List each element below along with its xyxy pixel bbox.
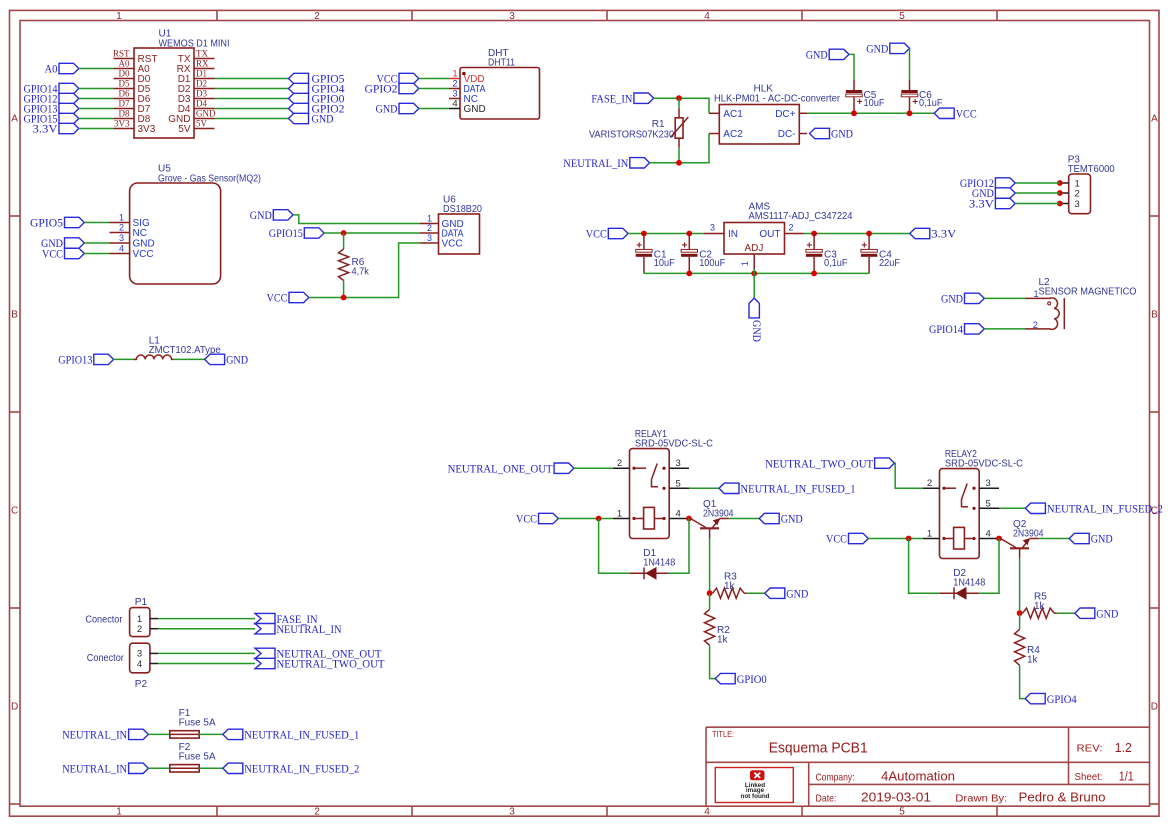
svg-text:D: D xyxy=(1151,702,1158,713)
svg-text:GPIO0: GPIO0 xyxy=(737,672,767,686)
wire 3.3V to P3 xyxy=(1015,203,1060,205)
junction C6/DC+ xyxy=(907,110,913,116)
svg-text:A: A xyxy=(1151,114,1158,125)
netflag 3.3V (P3) xyxy=(969,197,1015,211)
svg-text:VCC: VCC xyxy=(956,107,977,121)
P2 pin 4 xyxy=(137,659,158,670)
wire L1 to GND xyxy=(173,358,205,360)
RELAY2 pin 3 xyxy=(979,478,999,489)
DHT pin 1 VDD xyxy=(449,69,485,85)
title text Sheet xyxy=(1075,768,1134,783)
wire GPIO12 to U1 xyxy=(79,98,114,100)
svg-text:Conector: Conector xyxy=(87,653,125,664)
wire Q1 emitter to GND xyxy=(729,518,759,520)
RELAY1 contact NC point xyxy=(662,467,665,470)
svg-text:VARISTORS07K230: VARISTORS07K230 xyxy=(589,130,675,141)
svg-text:2: 2 xyxy=(927,478,932,489)
svg-text:not found: not found xyxy=(740,793,769,800)
netflag VCC (RELAY2) xyxy=(826,532,868,546)
svg-text:+: + xyxy=(861,240,867,251)
svg-text:3: 3 xyxy=(676,458,681,469)
sensor U6 DS18B20 body xyxy=(439,195,483,255)
U1 left pin D6 xyxy=(114,89,151,105)
netflag 3.3V xyxy=(33,122,79,136)
svg-text:3.3V: 3.3V xyxy=(931,227,956,241)
wire ADJ to GND flag xyxy=(753,269,755,298)
wire GND to C5 xyxy=(849,54,854,80)
netflag GND (Q1) xyxy=(759,512,803,526)
svg-text:1/1: 1/1 xyxy=(1119,768,1134,783)
connector P1 body xyxy=(85,597,150,637)
wire NEUTRAL_TWO_OUT to RELAY2 pin2 xyxy=(894,463,923,488)
RELAY2 coil xyxy=(942,527,975,549)
U6 pin 2 DATA xyxy=(419,223,463,239)
svg-text:2: 2 xyxy=(119,223,124,233)
RELAY2 contact NC point xyxy=(972,487,975,490)
RELAY1 coil xyxy=(632,507,665,529)
svg-text:D: D xyxy=(11,702,18,713)
svg-text:+: + xyxy=(912,97,918,108)
HLK pin AC1 xyxy=(709,109,743,120)
wire GND to L2 pin1 xyxy=(984,297,1025,299)
U1 right pin RX xyxy=(177,59,215,75)
svg-text:DS18B20: DS18B20 xyxy=(443,204,482,215)
netflag GND (L1) xyxy=(205,353,249,367)
fuse F1 Fuse 5A xyxy=(170,708,216,738)
wire P1 pin1 to FASE_IN xyxy=(158,618,255,620)
svg-text:2: 2 xyxy=(617,458,622,469)
svg-text:0,1uF: 0,1uF xyxy=(919,98,943,109)
netflag GND (DC-) xyxy=(810,127,854,141)
svg-text:GND: GND xyxy=(133,239,155,250)
P1 pin 2 xyxy=(137,624,158,635)
linked image placeholder xyxy=(715,768,793,803)
svg-text:3: 3 xyxy=(986,478,991,489)
RELAY1 contact common xyxy=(632,467,646,470)
netflag VCC (RELAY1) xyxy=(516,512,558,526)
DHT pin 2 DATA xyxy=(449,79,486,95)
svg-text:D6: D6 xyxy=(119,89,130,99)
svg-text:1: 1 xyxy=(119,213,124,223)
wire base to R4 xyxy=(1019,613,1021,629)
netflag NEUTRAL_IN_FUSED_2 (RELAY2) xyxy=(1025,502,1163,516)
relay RELAY1 SRD-05VDC-SL-C body xyxy=(630,429,713,539)
RELAY1 pin 1 xyxy=(613,509,630,520)
U1 left pin 3V3 xyxy=(114,119,156,135)
varistor R1 VARISTORS07K230 xyxy=(589,98,688,163)
RELAY1 pin 2 xyxy=(613,458,630,469)
wire GPIO13 to L1 xyxy=(114,358,136,360)
transistor Q2 2N3904 xyxy=(1001,519,1044,558)
svg-text:A: A xyxy=(11,114,18,125)
inductor L2 SENSOR MAGNETICO xyxy=(1025,277,1137,330)
svg-text:NEUTRAL_IN: NEUTRAL_IN xyxy=(62,728,127,742)
DHT pin 4 GND xyxy=(449,99,486,115)
U1 right pin D3 xyxy=(178,89,215,105)
netflag GND xyxy=(289,112,334,126)
wire Q1 base down xyxy=(709,538,711,593)
netflag GND (R3) xyxy=(765,586,809,600)
wire P1 pin2 to NEUTRAL_IN xyxy=(158,628,255,630)
wire GND to C6 xyxy=(909,48,911,80)
svg-text:4,7k: 4,7k xyxy=(352,267,370,278)
svg-text:NEUTRAL_IN_FUSED_2: NEUTRAL_IN_FUSED_2 xyxy=(1047,502,1163,516)
diode D1 1N4148 xyxy=(630,548,676,580)
frame column numbers top xyxy=(116,11,905,22)
RELAY1 pin 5 xyxy=(669,478,689,489)
junction on DATA net xyxy=(341,230,347,236)
wire OUT rail to 3.3V xyxy=(804,233,910,235)
U1 left pin D0 xyxy=(114,69,151,85)
junction C2/gnd rail xyxy=(686,271,692,277)
wire GND to P3 xyxy=(1015,192,1060,194)
svg-text:Esquema PCB1: Esquema PCB1 xyxy=(769,740,868,757)
wire U1 to GPIO4 xyxy=(215,88,289,90)
netflag NEUTRAL_IN (F1) xyxy=(62,728,148,742)
wire VCC to RELAY1 pin1 xyxy=(558,518,613,520)
netflag GPIO13 xyxy=(24,102,79,116)
svg-text:+: + xyxy=(857,97,863,108)
svg-text:D0: D0 xyxy=(119,69,130,79)
svg-text:GND: GND xyxy=(781,512,803,526)
wire DC+ rail to VCC xyxy=(807,112,934,114)
svg-text:A0: A0 xyxy=(119,59,130,69)
netflag NEUTRAL_IN_FUSED_2 xyxy=(223,762,360,776)
svg-text:3V3: 3V3 xyxy=(138,124,156,135)
wire VCC to DHT pin1 xyxy=(419,78,449,80)
wire U1 to GPIO0 xyxy=(215,98,289,100)
svg-text:3.3V: 3.3V xyxy=(33,122,58,136)
svg-text:2: 2 xyxy=(1075,188,1080,199)
wire D1 loop xyxy=(599,519,689,574)
RELAY2 pin 4 xyxy=(979,529,999,540)
svg-text:2: 2 xyxy=(314,11,320,22)
wire NEUTRAL_ONE_OUT to RELAY1 pin2 xyxy=(574,467,613,469)
svg-text:100uF: 100uF xyxy=(699,258,725,269)
resistor R3 1k xyxy=(713,572,747,599)
wire R4 to GPIO4 xyxy=(1020,665,1026,698)
svg-text:5: 5 xyxy=(899,807,905,818)
svg-text:GND: GND xyxy=(250,208,272,222)
svg-text:WEMOS D1 MINI: WEMOS D1 MINI xyxy=(159,39,230,50)
RELAY1 pin 4 xyxy=(669,509,689,520)
svg-text:3: 3 xyxy=(509,807,515,818)
RELAY1 contact lever xyxy=(652,464,659,487)
junction P3 pin 3 xyxy=(1057,201,1063,207)
svg-text:RST: RST xyxy=(113,49,130,59)
netflag GPIO0 xyxy=(715,672,767,686)
svg-text:GND: GND xyxy=(312,112,334,126)
svg-text:GND: GND xyxy=(196,109,216,119)
svg-text:NEUTRAL_TWO_OUT: NEUTRAL_TWO_OUT xyxy=(277,657,386,671)
svg-text:4: 4 xyxy=(119,244,124,254)
HLK pin AC2 xyxy=(709,129,743,140)
svg-text:GPIO15: GPIO15 xyxy=(269,226,303,240)
svg-text:IN: IN xyxy=(728,229,738,240)
netflag GPIO5 xyxy=(289,72,345,86)
svg-text:HLK-PM01 - AC-DC-converter: HLK-PM01 - AC-DC-converter xyxy=(714,93,841,104)
svg-text:GND: GND xyxy=(786,586,808,600)
junction C1 on IN xyxy=(641,231,647,237)
resistor R2 1k xyxy=(705,609,731,645)
svg-text:GND: GND xyxy=(941,292,963,306)
svg-text:4: 4 xyxy=(986,529,991,540)
svg-text:1: 1 xyxy=(740,261,750,266)
wire GND to U6 pin1 xyxy=(293,215,419,224)
wire GPIO14 to L2 pin2 xyxy=(984,328,1025,330)
svg-text:1N4148: 1N4148 xyxy=(953,578,985,589)
netflag GPIO14 (L2) xyxy=(929,322,984,336)
title text TITLE xyxy=(712,730,868,757)
svg-text:2: 2 xyxy=(427,223,432,233)
wire U1 to GND xyxy=(215,118,289,120)
netflag NEUTRAL_TWO_OUT (P2) xyxy=(255,657,385,671)
junction C2 on IN xyxy=(686,231,692,237)
relay RELAY2 SRD-05VDC-SL-C body xyxy=(940,449,1023,559)
svg-text:Company:: Company: xyxy=(816,772,855,784)
svg-text:1k: 1k xyxy=(1034,601,1046,612)
svg-text:GND: GND xyxy=(866,42,888,56)
svg-text:TX: TX xyxy=(196,49,208,59)
wire NEUTRAL_IN to F2 xyxy=(148,767,169,769)
svg-text:VCC: VCC xyxy=(586,227,607,241)
netflag GND (C5) xyxy=(806,48,849,62)
connector P2 body xyxy=(87,643,150,690)
P3 pin 2 xyxy=(1060,188,1080,199)
junction P3 pin 2 xyxy=(1057,190,1063,196)
svg-text:Grove - Gas Sensor(MQ2): Grove - Gas Sensor(MQ2) xyxy=(158,174,261,185)
svg-text:NEUTRAL_IN: NEUTRAL_IN xyxy=(563,156,628,170)
U1 right pin 5V xyxy=(178,119,214,135)
svg-text:2: 2 xyxy=(314,807,320,818)
svg-text:NEUTRAL_IN: NEUTRAL_IN xyxy=(277,622,342,636)
svg-text:5V: 5V xyxy=(178,124,191,135)
wire GND to DHT pin4 xyxy=(419,108,449,110)
svg-text:R1: R1 xyxy=(652,119,665,130)
svg-text:RX: RX xyxy=(196,59,209,69)
svg-text:1.2: 1.2 xyxy=(1115,740,1132,755)
svg-text:P1: P1 xyxy=(135,597,148,608)
svg-text:5: 5 xyxy=(899,11,905,22)
resistor R6 4,7k xyxy=(339,249,370,281)
svg-text:NEUTRAL_IN_FUSED_2: NEUTRAL_IN_FUSED_2 xyxy=(244,762,359,776)
svg-text:Pedro & Bruno: Pedro & Bruno xyxy=(1019,789,1106,804)
svg-text:4: 4 xyxy=(137,659,142,670)
U5 pin 2 NC xyxy=(110,223,147,239)
svg-text:VCC: VCC xyxy=(442,239,463,250)
junction base/R3 xyxy=(707,590,713,596)
netflag GPIO12 xyxy=(24,92,79,106)
svg-text:GND: GND xyxy=(1096,606,1118,620)
netflag GND (L2) xyxy=(941,292,984,306)
converter HLK HLK-PM01 body xyxy=(714,84,841,145)
svg-text:22uF: 22uF xyxy=(879,258,900,269)
wire R6 top xyxy=(343,233,345,249)
wire GPIO15 to U6 DATA xyxy=(324,232,419,234)
title block xyxy=(706,727,1150,806)
svg-text:2: 2 xyxy=(789,223,794,233)
svg-text:AC1: AC1 xyxy=(723,109,743,120)
svg-text:+: + xyxy=(806,240,812,251)
netflag NEUTRAL_IN (P1) xyxy=(255,622,342,636)
svg-text:DC+: DC+ xyxy=(775,109,795,120)
netflag FASE_IN (P1) xyxy=(255,612,318,626)
svg-text:AC2: AC2 xyxy=(723,129,743,140)
svg-text:0,1uF: 0,1uF xyxy=(824,258,848,269)
U1 left pin A0 xyxy=(114,59,151,75)
svg-text:2: 2 xyxy=(1033,320,1038,330)
svg-text:DC-: DC- xyxy=(778,129,796,140)
svg-text:1N4148: 1N4148 xyxy=(643,558,675,569)
svg-text:VCC: VCC xyxy=(267,291,288,305)
svg-text:ADJ: ADJ xyxy=(745,243,764,254)
capacitor C3 0,1uF xyxy=(806,234,848,274)
U1 right pin D1 xyxy=(178,69,215,85)
netflag A0 xyxy=(45,62,79,76)
svg-text:1: 1 xyxy=(116,11,122,22)
svg-text:D4: D4 xyxy=(196,99,207,109)
netflag VCC (DHT) xyxy=(377,72,419,86)
transistor Q1 2N3904 xyxy=(691,499,734,538)
P1 pin 1 xyxy=(137,614,158,625)
sensor DHT DHT11 body xyxy=(460,48,540,119)
netflag VCC (DC+) xyxy=(934,107,977,121)
svg-text:GND: GND xyxy=(226,353,248,367)
U5 pin 1 SIG xyxy=(110,213,150,229)
capacitor C2 100uF xyxy=(681,234,725,274)
wire VCC to RELAY2 pin1 xyxy=(868,538,923,540)
junction VCC/R6 xyxy=(341,295,347,301)
svg-text:1: 1 xyxy=(452,69,457,79)
junction FASE_IN/R1 xyxy=(676,95,682,101)
netflag GPIO2 xyxy=(365,82,419,96)
netflag GPIO15 xyxy=(24,112,79,126)
wire R2 to GPIO0 xyxy=(710,645,716,678)
wire GPIO2 to DHT pin2 xyxy=(419,88,449,90)
svg-text:3: 3 xyxy=(427,233,432,243)
wire Q2 emitter to GND xyxy=(1039,538,1069,540)
U1 left pin D7 xyxy=(114,99,151,115)
wire GPIO15 to U1 xyxy=(79,118,114,120)
AMS pin 2 OUT xyxy=(759,223,803,241)
svg-text:3: 3 xyxy=(710,223,715,233)
netflag GPIO4 xyxy=(1025,692,1077,706)
svg-text:1: 1 xyxy=(927,529,932,540)
U1 left pin D8 xyxy=(114,109,151,125)
U1 right pin D2 xyxy=(178,79,215,95)
svg-text:Conector: Conector xyxy=(85,615,123,626)
svg-text:5: 5 xyxy=(986,498,991,509)
wire R5 to GND xyxy=(1057,612,1075,614)
capacitor C6 0,1uF xyxy=(901,80,942,113)
svg-text:1: 1 xyxy=(1034,289,1039,299)
DHT pin 3 NC xyxy=(449,89,478,105)
regulator AMS AMS1117-ADJ_C347224 body xyxy=(724,202,853,255)
wire VCC to U5 xyxy=(84,253,109,255)
title text Company xyxy=(816,769,956,784)
svg-text:GPIO13: GPIO13 xyxy=(58,353,92,367)
AMS pin 1 ADJ xyxy=(740,243,763,269)
svg-text:3V3: 3V3 xyxy=(114,119,130,129)
svg-text:Sheet:: Sheet: xyxy=(1075,771,1103,783)
wire VCC to AMS IN xyxy=(628,233,704,235)
junction ADJ/gnd rail xyxy=(751,271,757,277)
svg-text:3: 3 xyxy=(1075,199,1080,210)
svg-text:NEUTRAL_TWO_OUT: NEUTRAL_TWO_OUT xyxy=(765,456,874,470)
netflag GPIO15 xyxy=(269,226,324,240)
svg-text:VCC: VCC xyxy=(42,247,63,261)
svg-text:Fuse 5A: Fuse 5A xyxy=(179,751,216,762)
svg-text:GND: GND xyxy=(750,320,764,342)
netflag GND (Q2) xyxy=(1069,532,1113,546)
svg-text:OUT: OUT xyxy=(759,229,780,240)
junction P3 pin 1 xyxy=(1057,180,1063,186)
svg-text:3: 3 xyxy=(452,89,457,99)
netflag VCC (U6) xyxy=(267,291,309,305)
RELAY2 pin 1 xyxy=(923,529,940,540)
svg-text:GND: GND xyxy=(806,48,828,62)
netflag VCC (AMS in) xyxy=(586,227,628,241)
netflag GND xyxy=(41,236,84,250)
U6 pin 1 GND xyxy=(419,214,464,230)
svg-text:D2: D2 xyxy=(196,79,207,89)
connector P3 TEMT6000 body xyxy=(1068,155,1115,214)
svg-text:3: 3 xyxy=(119,233,124,243)
svg-text:D7: D7 xyxy=(119,99,130,109)
wire Q2 base down xyxy=(1019,558,1021,613)
U6 pin 3 VCC xyxy=(419,233,462,249)
junction NEUTRAL_IN/R1 xyxy=(676,160,682,166)
wire 3.3V to U1 xyxy=(79,128,114,130)
junction C5/DC+ xyxy=(851,110,857,116)
frame row letters left xyxy=(11,114,18,713)
junction pin4/Q1 xyxy=(686,516,692,522)
svg-text:D1: D1 xyxy=(196,69,207,79)
RELAY2 contact NO point xyxy=(972,507,975,510)
junction VCC/D1 xyxy=(596,516,602,522)
svg-text:GPIO14: GPIO14 xyxy=(929,322,963,336)
frame row letters right xyxy=(1151,114,1158,713)
U1 left pin D5 xyxy=(114,79,151,95)
svg-text:1k: 1k xyxy=(717,634,729,645)
wire GND to U5 xyxy=(84,242,109,244)
svg-text:NC: NC xyxy=(133,228,147,239)
junction VCC/D2 xyxy=(906,536,912,542)
svg-text:1k: 1k xyxy=(1027,654,1039,665)
svg-text:D8: D8 xyxy=(119,109,130,119)
svg-text:2: 2 xyxy=(452,79,457,89)
netflag GND (P3) xyxy=(972,186,1015,200)
netflag GPIO0 xyxy=(289,92,345,106)
netflag GPIO2 xyxy=(289,102,345,116)
svg-text:DHT11: DHT11 xyxy=(488,58,515,69)
capacitor C5 10uF xyxy=(846,80,885,113)
U5 pin 3 GND xyxy=(110,233,155,249)
svg-text:4: 4 xyxy=(704,11,710,22)
netflag FASE_IN xyxy=(591,91,653,105)
wire GPIO13 to U1 xyxy=(79,108,114,110)
netflag VCC xyxy=(42,247,84,261)
U1 left pin RST xyxy=(113,49,158,65)
RELAY2 contact common xyxy=(942,487,956,490)
RELAY2 contact lever xyxy=(962,484,969,507)
svg-text:SRD-05VDC-SL-C: SRD-05VDC-SL-C xyxy=(635,439,713,450)
svg-text:Date:: Date: xyxy=(816,792,837,804)
HLK pin DC- xyxy=(778,129,807,140)
netflag GND (R5) xyxy=(1075,606,1119,620)
svg-text:2019-03-01: 2019-03-01 xyxy=(861,789,931,804)
AMS pin 3 IN xyxy=(704,223,738,241)
